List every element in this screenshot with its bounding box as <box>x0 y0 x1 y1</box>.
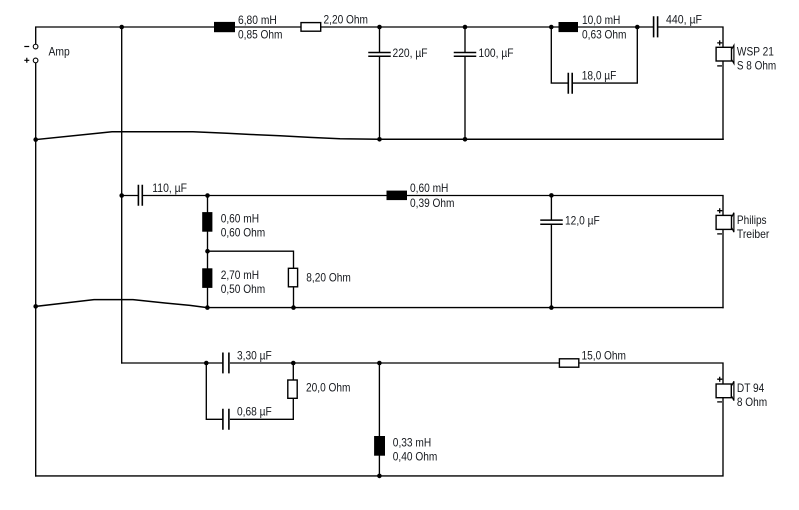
svg-text:0,39 Ohm: 0,39 Ohm <box>410 196 455 210</box>
svg-text:0,60 mH: 0,60 mH <box>410 181 448 195</box>
svg-text:0,33 mH: 0,33 mH <box>393 435 431 449</box>
svg-text:3,30 µF: 3,30 µF <box>237 348 272 362</box>
svg-text:10,0 mH: 10,0 mH <box>582 13 620 27</box>
svg-text:2,20 Ohm: 2,20 Ohm <box>324 13 369 27</box>
svg-text:110, µF: 110, µF <box>152 181 187 195</box>
svg-text:Amp: Amp <box>49 45 71 59</box>
svg-text:0,50 Ohm: 0,50 Ohm <box>221 282 266 296</box>
svg-text:S 8 Ohm: S 8 Ohm <box>737 59 776 73</box>
svg-text:0,60 Ohm: 0,60 Ohm <box>221 226 266 240</box>
svg-text:18,0 µF: 18,0 µF <box>582 68 617 82</box>
svg-text:8 Ohm: 8 Ohm <box>737 395 767 409</box>
svg-text:0,85 Ohm: 0,85 Ohm <box>238 27 283 41</box>
svg-text:8,20 Ohm: 8,20 Ohm <box>306 270 351 284</box>
svg-text:0,63 Ohm: 0,63 Ohm <box>582 27 627 41</box>
svg-text:12,0 µF: 12,0 µF <box>565 213 600 227</box>
svg-text:20,0 Ohm: 20,0 Ohm <box>306 381 351 395</box>
svg-text:440, µF: 440, µF <box>666 12 702 26</box>
svg-text:100, µF: 100, µF <box>479 46 514 60</box>
svg-text:2,70 mH: 2,70 mH <box>221 268 259 282</box>
svg-text:WSP 21: WSP 21 <box>737 45 774 59</box>
svg-text:15,0 Ohm: 15,0 Ohm <box>582 349 627 363</box>
svg-text:0,68 µF: 0,68 µF <box>237 405 272 419</box>
svg-text:DT 94: DT 94 <box>737 381 765 395</box>
svg-text:Philips: Philips <box>737 213 767 227</box>
svg-text:6,80 mH: 6,80 mH <box>238 13 277 27</box>
svg-text:0,60 mH: 0,60 mH <box>221 212 259 226</box>
svg-text:Treiber: Treiber <box>737 227 770 241</box>
svg-text:0,40 Ohm: 0,40 Ohm <box>393 449 438 463</box>
svg-text:220, µF: 220, µF <box>393 46 428 60</box>
